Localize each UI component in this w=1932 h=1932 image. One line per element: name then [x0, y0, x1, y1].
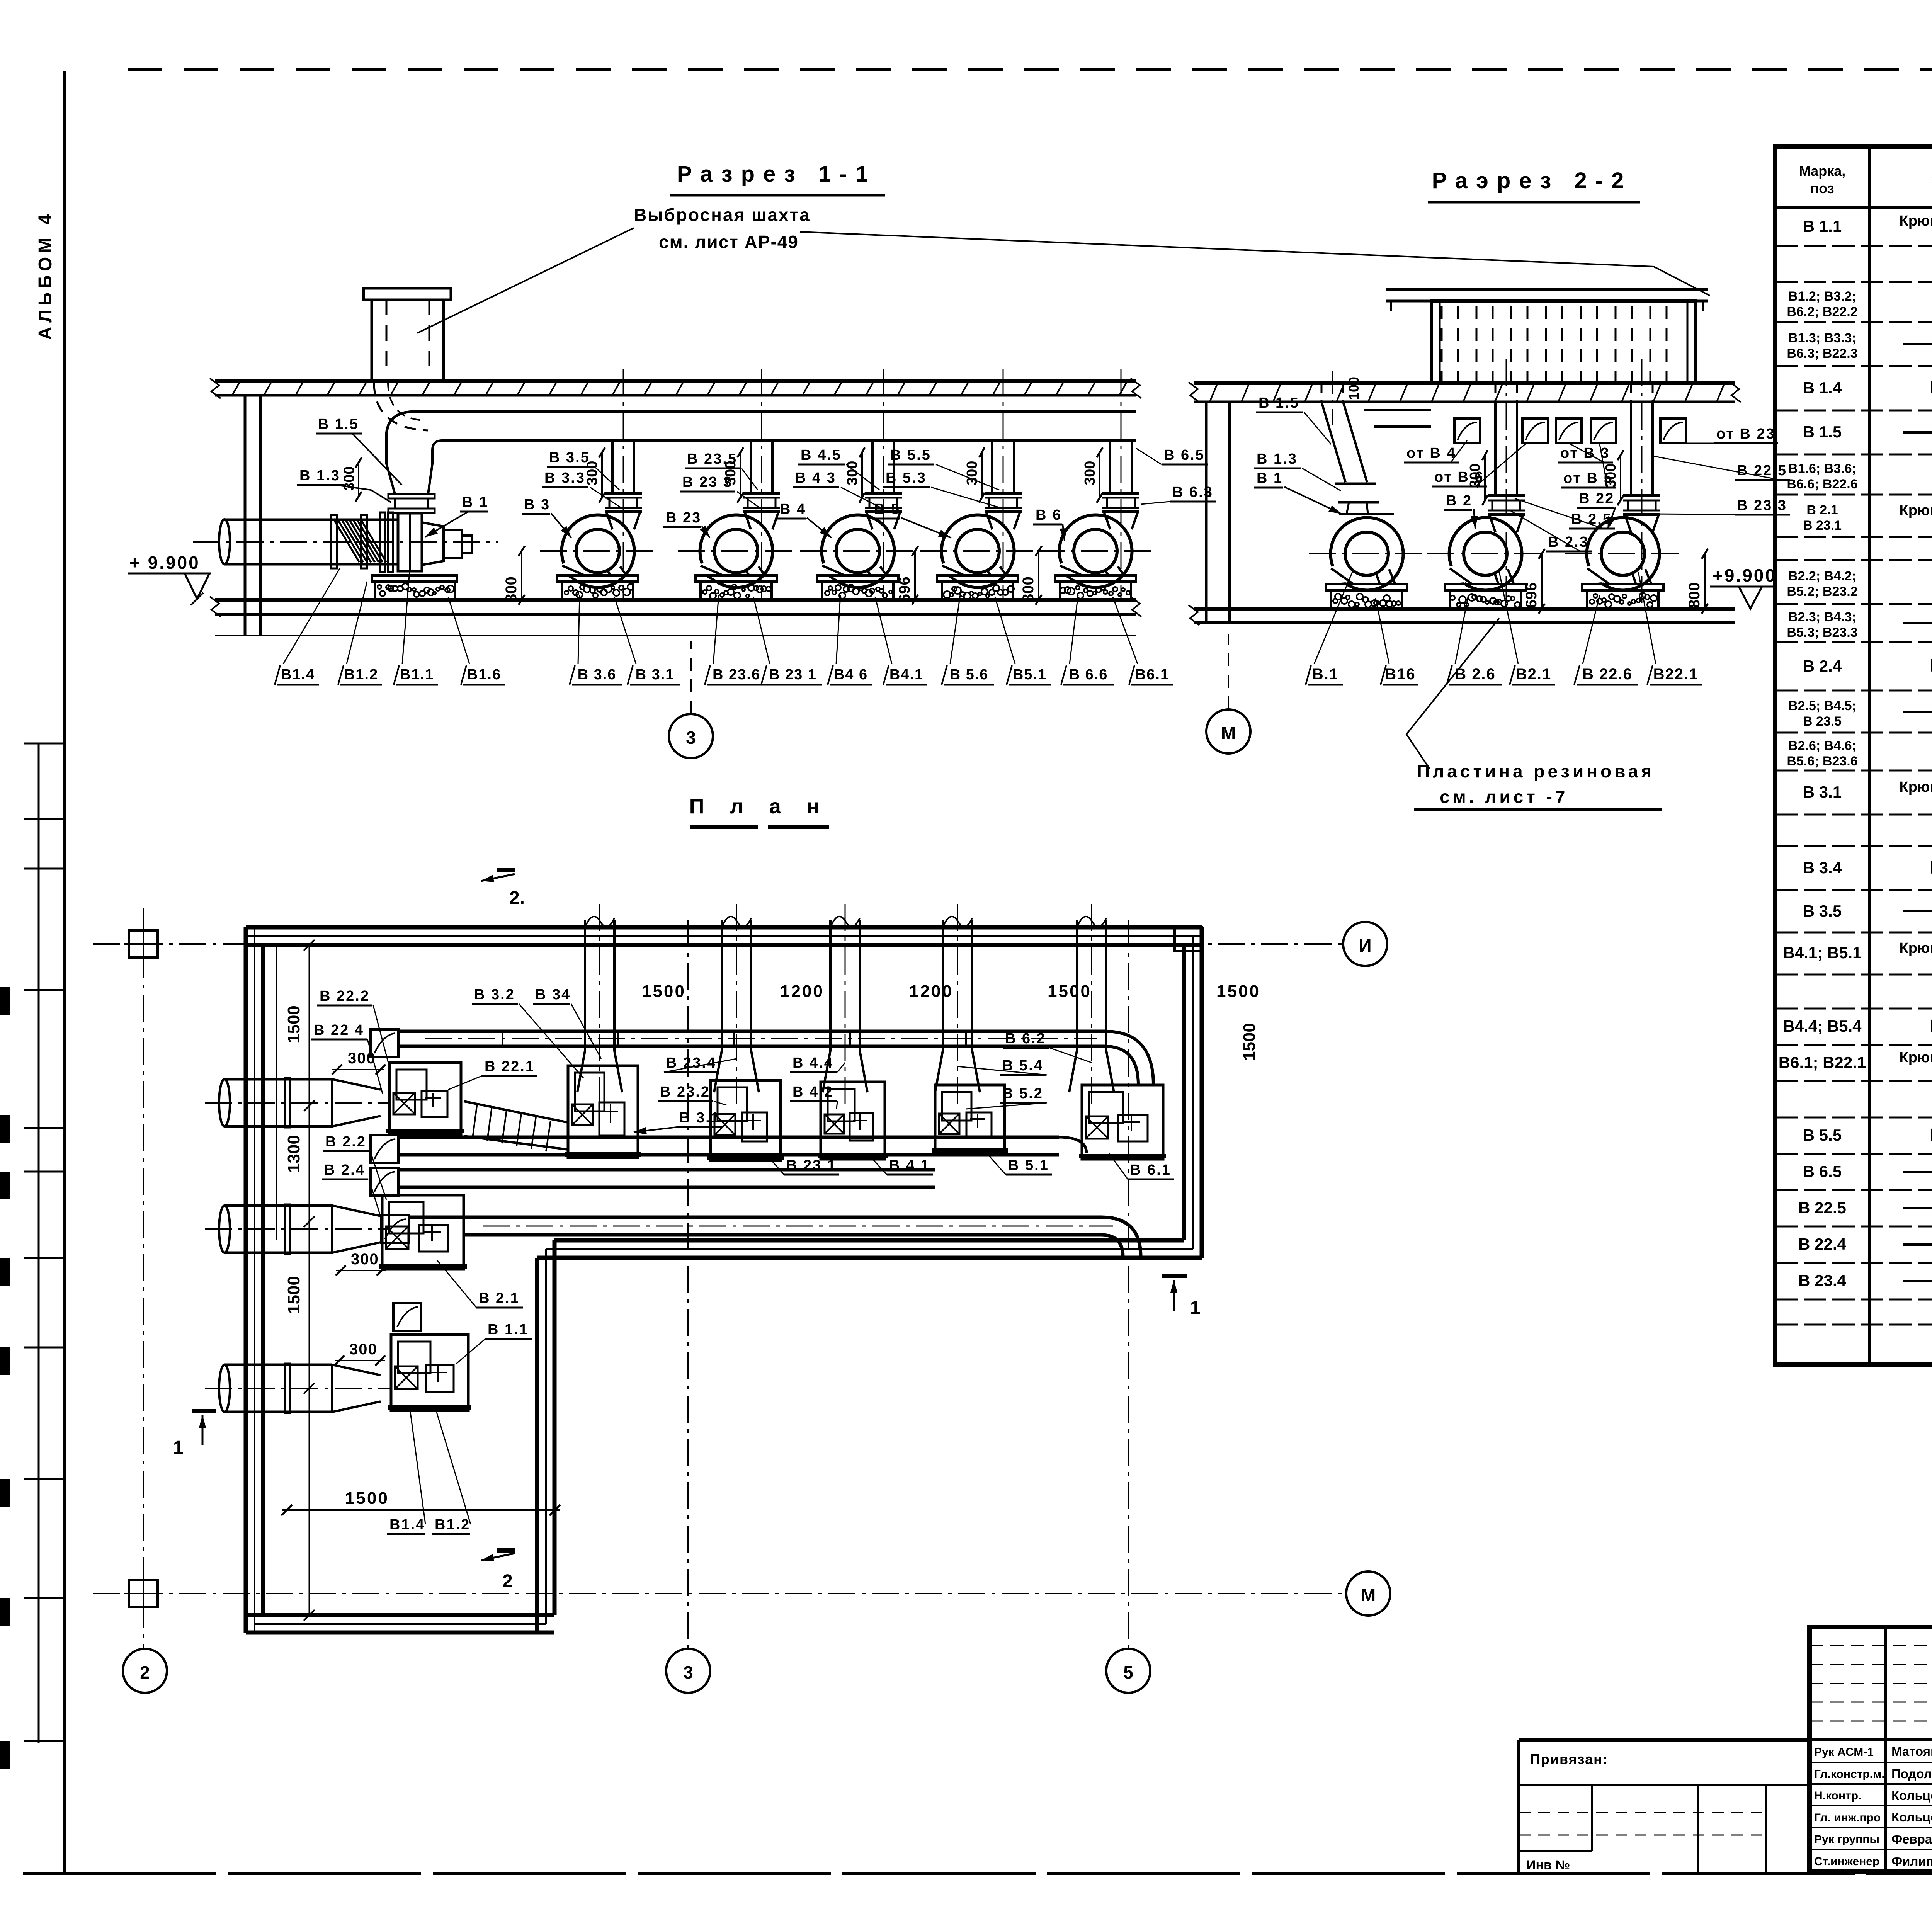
svg-text:В2.6; В4.6;: В2.6; В4.6; — [1788, 738, 1856, 753]
svg-text:В 4.2: В 4.2 — [793, 1084, 833, 1100]
svg-text:ГОСТ 19904-74: ГОСТ 19904-74 — [1930, 1016, 1932, 1036]
svg-text:В2.5; В4.5;: В2.5; В4.5; — [1788, 699, 1856, 713]
svg-text:ГОСТ 19904-74: ГОСТ 19904-74 — [1930, 1125, 1932, 1145]
svg-text:+ 9.900: + 9.900 — [129, 553, 200, 573]
svg-text:В2.2; В4.2;: В2.2; В4.2; — [1788, 569, 1856, 583]
svg-text:В 5.1: В 5.1 — [1008, 1157, 1049, 1173]
svg-text:В 5.2: В 5.2 — [1002, 1085, 1043, 1102]
svg-text:В 2: В 2 — [1446, 493, 1472, 509]
svg-text:В 6.6: В 6.6 — [1069, 667, 1108, 683]
svg-text:Рук АСМ-1: Рук АСМ-1 — [1814, 1746, 1874, 1759]
svg-text:В5.6; В23.6: В5.6; В23.6 — [1787, 754, 1857, 769]
svg-text:В5.1: В5.1 — [1013, 667, 1047, 683]
svg-text:В 5.6: В 5.6 — [950, 667, 989, 683]
svg-text:300: 300 — [348, 1050, 376, 1067]
svg-text:2.: 2. — [509, 888, 525, 908]
svg-text:Кольцова: Кольцова — [1891, 1788, 1932, 1803]
svg-text:Разрез 1-1: Разрез 1-1 — [677, 162, 876, 187]
svg-text:В 23.3: В 23.3 — [1737, 497, 1787, 514]
svg-text:1500: 1500 — [642, 982, 686, 1001]
svg-text:В4.1: В4.1 — [889, 667, 923, 683]
svg-text:В 3.2: В 3.2 — [474, 986, 515, 1003]
svg-text:3: 3 — [686, 728, 696, 748]
svg-text:В5.2; В23.2: В5.2; В23.2 — [1787, 584, 1857, 599]
svg-text:В 2.6: В 2.6 — [1455, 666, 1496, 683]
svg-text:В 23: В 23 — [666, 510, 701, 526]
svg-text:В6.3; В22.3: В6.3; В22.3 — [1787, 346, 1857, 361]
svg-text:1500: 1500 — [284, 1005, 303, 1043]
svg-text:В5.3; В23.3: В5.3; В23.3 — [1787, 625, 1857, 640]
svg-text:1500: 1500 — [345, 1489, 389, 1508]
svg-text:Н.контр.: Н.контр. — [1814, 1789, 1861, 1802]
svg-text:2: 2 — [502, 1571, 513, 1592]
svg-text:В 3.1: В 3.1 — [636, 667, 675, 683]
svg-text:Привязан:: Привязан: — [1530, 1751, 1608, 1767]
svg-text:2: 2 — [140, 1662, 150, 1682]
svg-text:В2.3; В4.3;: В2.3; В4.3; — [1788, 610, 1856, 624]
svg-text:В 3.6: В 3.6 — [578, 667, 617, 683]
svg-text:Ст.инженер: Ст.инженер — [1814, 1855, 1879, 1868]
svg-text:Крюковский вентиляторный: Крюковский вентиляторный — [1900, 940, 1932, 956]
svg-text:В 34: В 34 — [535, 986, 571, 1003]
svg-text:696: 696 — [1523, 582, 1540, 608]
svg-text:В 23.5: В 23.5 — [687, 451, 737, 467]
svg-text:Матоян: Матоян — [1891, 1744, 1932, 1759]
svg-text:В4 6: В4 6 — [834, 667, 868, 683]
svg-text:Крюковский вентиляторный: Крюковский вентиляторный — [1900, 502, 1932, 519]
svg-text:В 6.5: В 6.5 — [1803, 1162, 1842, 1180]
svg-text:В 23.2: В 23.2 — [660, 1084, 710, 1100]
svg-text:В4.4; В5.4: В4.4; В5.4 — [1783, 1017, 1862, 1035]
svg-text:ГОСТ 19904-74: ГОСТ 19904-74 — [1930, 377, 1932, 397]
svg-text:от В 23: от В 23 — [1716, 426, 1776, 442]
svg-text:М: М — [1221, 723, 1236, 743]
svg-text:В1.1: В1.1 — [400, 667, 434, 683]
svg-text:В 4 3: В 4 3 — [795, 470, 836, 486]
svg-text:1300: 1300 — [284, 1135, 303, 1173]
svg-text:В 23.5: В 23.5 — [1803, 714, 1842, 729]
svg-text:В 2.4: В 2.4 — [1803, 657, 1842, 675]
svg-text:В1.2; В3.2;: В1.2; В3.2; — [1788, 289, 1856, 304]
svg-text:800: 800 — [1020, 577, 1037, 602]
svg-text:В 1.5: В 1.5 — [1803, 423, 1842, 441]
svg-text:П л а н: П л а н — [689, 795, 830, 818]
svg-text:см. лист АР-49: см. лист АР-49 — [659, 232, 799, 252]
svg-text:1200: 1200 — [909, 982, 953, 1001]
svg-text:В1.3; В3.3;: В1.3; В3.3; — [1788, 331, 1856, 345]
svg-text:Крюковский вентиляторный: Крюковский вентиляторный — [1900, 213, 1932, 229]
svg-text:В 23 3: В 23 3 — [682, 474, 733, 490]
svg-text:696: 696 — [896, 577, 913, 602]
svg-text:Марка,: Марка, — [1799, 163, 1845, 179]
svg-text:В 2.2: В 2.2 — [325, 1134, 366, 1150]
svg-text:В 6.2: В 6.2 — [1005, 1031, 1046, 1047]
svg-text:ГОСТ 19904-74: ГОСТ 19904-74 — [1930, 857, 1932, 878]
svg-text:В 5.3: В 5.3 — [886, 470, 927, 486]
svg-text:ГОСТ 19904-74: ГОСТ 19904-74 — [1930, 655, 1932, 675]
svg-text:поз: поз — [1810, 180, 1834, 196]
svg-text:Филиппова: Филиппова — [1891, 1854, 1932, 1868]
svg-text:1: 1 — [173, 1437, 184, 1458]
svg-text:Гл.констр.м.: Гл.констр.м. — [1814, 1768, 1885, 1781]
svg-text:В 4.5: В 4.5 — [801, 447, 842, 463]
svg-text:Подольский: Подольский — [1891, 1767, 1932, 1781]
svg-text:В 1.1: В 1.1 — [1803, 217, 1842, 235]
svg-text:см. лист -7: см. лист -7 — [1440, 787, 1568, 807]
svg-text:В 22.5: В 22.5 — [1798, 1199, 1846, 1217]
svg-text:Февралева: Февралева — [1891, 1832, 1932, 1846]
svg-text:В1.6: В1.6 — [467, 667, 501, 683]
svg-text:В 3.1: В 3.1 — [1803, 783, 1842, 801]
svg-text:В 23.4: В 23.4 — [1798, 1271, 1846, 1289]
svg-text:Крюковский вентиляторный: Крюковский вентиляторный — [1900, 1049, 1932, 1066]
svg-text:Выбросная шахта: Выбросная шахта — [634, 205, 811, 225]
svg-text:В 2.1: В 2.1 — [479, 1290, 520, 1306]
svg-text:Пластина резиновая: Пластина резиновая — [1417, 761, 1655, 781]
svg-text:Крюковский вентиляторный: Крюковский вентиляторный — [1900, 779, 1932, 795]
svg-text:В22.1: В22.1 — [1653, 666, 1699, 683]
svg-text:В 1.5: В 1.5 — [318, 416, 359, 432]
svg-text:В 22.4: В 22.4 — [1798, 1235, 1846, 1253]
svg-text:В 4.4: В 4.4 — [793, 1055, 833, 1071]
svg-text:300: 300 — [1082, 461, 1098, 485]
svg-text:В 22.1: В 22.1 — [485, 1058, 535, 1075]
svg-text:В 5: В 5 — [874, 501, 900, 517]
svg-text:Гл. инж.про: Гл. инж.про — [1814, 1811, 1881, 1824]
svg-text:+9.900: +9.900 — [1713, 565, 1777, 585]
svg-text:В1.4: В1.4 — [389, 1517, 425, 1533]
svg-text:3: 3 — [683, 1662, 693, 1682]
svg-text:В 23 1: В 23 1 — [769, 667, 817, 683]
svg-text:В 23.6: В 23.6 — [713, 667, 760, 683]
svg-text:1: 1 — [1190, 1298, 1201, 1318]
svg-text:В 6.1: В 6.1 — [1130, 1162, 1171, 1178]
svg-text:В1.2: В1.2 — [435, 1517, 470, 1533]
svg-text:800: 800 — [503, 577, 520, 602]
svg-text:В 6.5: В 6.5 — [1164, 447, 1205, 463]
svg-text:В 3.5: В 3.5 — [549, 449, 590, 466]
svg-text:В 4: В 4 — [780, 501, 806, 517]
svg-text:В 4.1: В 4.1 — [889, 1157, 930, 1173]
svg-text:В6.1; В22.1: В6.1; В22.1 — [1779, 1053, 1866, 1071]
svg-text:В 5.5: В 5.5 — [890, 447, 931, 463]
svg-text:В 3.5: В 3.5 — [1803, 902, 1842, 920]
svg-text:1500: 1500 — [284, 1276, 303, 1314]
svg-text:В1.2: В1.2 — [344, 667, 378, 683]
svg-text:1200: 1200 — [780, 982, 824, 1001]
svg-text:М: М — [1361, 1585, 1376, 1605]
svg-text:В1.6; В3.6;: В1.6; В3.6; — [1788, 461, 1856, 476]
svg-text:В 23.1: В 23.1 — [786, 1157, 837, 1173]
svg-text:1500: 1500 — [1048, 982, 1092, 1001]
svg-text:300: 300 — [349, 1341, 378, 1358]
svg-text:В 2.1: В 2.1 — [1806, 503, 1838, 517]
svg-text:В1.4: В1.4 — [281, 667, 315, 683]
svg-text:В.1: В.1 — [1312, 666, 1338, 683]
svg-text:В 3.1: В 3.1 — [679, 1110, 720, 1126]
svg-text:В 1.1: В 1.1 — [488, 1321, 529, 1338]
svg-text:5: 5 — [1123, 1662, 1133, 1682]
svg-text:В 1.4: В 1.4 — [1803, 379, 1842, 397]
svg-text:В16: В16 — [1385, 666, 1415, 683]
svg-text:В 3.4: В 3.4 — [1803, 859, 1842, 877]
svg-text:В 1: В 1 — [462, 494, 488, 510]
svg-text:от В 4: от В 4 — [1406, 445, 1456, 461]
svg-text:В 23.1: В 23.1 — [1803, 518, 1842, 533]
svg-text:В 23.4: В 23.4 — [666, 1055, 716, 1071]
svg-text:И: И — [1359, 935, 1371, 956]
svg-text:В 22.6: В 22.6 — [1582, 666, 1633, 683]
svg-text:В 5.5: В 5.5 — [1803, 1126, 1842, 1144]
svg-text:В 1.3: В 1.3 — [1257, 451, 1298, 467]
svg-text:300: 300 — [341, 466, 357, 491]
svg-text:100: 100 — [1346, 377, 1362, 400]
svg-text:В 22.2: В 22.2 — [320, 988, 370, 1004]
svg-text:Инв №: Инв № — [1526, 1858, 1570, 1872]
svg-text:В6.2; В22.2: В6.2; В22.2 — [1787, 304, 1857, 319]
svg-text:В 1.3: В 1.3 — [299, 468, 340, 484]
svg-text:В 2.4: В 2.4 — [324, 1162, 365, 1178]
svg-text:800: 800 — [1686, 582, 1703, 608]
svg-text:Рук группы: Рук группы — [1814, 1833, 1879, 1846]
svg-text:В6.1: В6.1 — [1135, 667, 1169, 683]
svg-text:от В 6: от В 6 — [1434, 469, 1484, 485]
svg-text:В 3: В 3 — [524, 497, 550, 513]
svg-text:В6.6; В22.6: В6.6; В22.6 — [1787, 477, 1857, 492]
svg-text:В 6: В 6 — [1036, 507, 1062, 523]
svg-text:В 1: В 1 — [1257, 470, 1283, 486]
svg-text:АЛЬБОМ 4: АЛЬБОМ 4 — [35, 211, 56, 340]
svg-text:В2.1: В2.1 — [1516, 666, 1552, 683]
svg-text:1500: 1500 — [1216, 982, 1260, 1001]
svg-text:Раэрез 2-2: Раэрез 2-2 — [1432, 168, 1633, 193]
svg-text:В 3.3: В 3.3 — [544, 470, 585, 486]
svg-text:В 1.5: В 1.5 — [1259, 395, 1299, 411]
svg-text:1500: 1500 — [1240, 1023, 1259, 1061]
svg-text:В4.1; В5.1: В4.1; В5.1 — [1783, 944, 1861, 962]
svg-text:Кольцова: Кольцова — [1891, 1810, 1932, 1824]
svg-text:В 22 4: В 22 4 — [314, 1022, 364, 1038]
svg-text:В 22: В 22 — [1579, 490, 1614, 507]
svg-text:300: 300 — [351, 1251, 379, 1268]
